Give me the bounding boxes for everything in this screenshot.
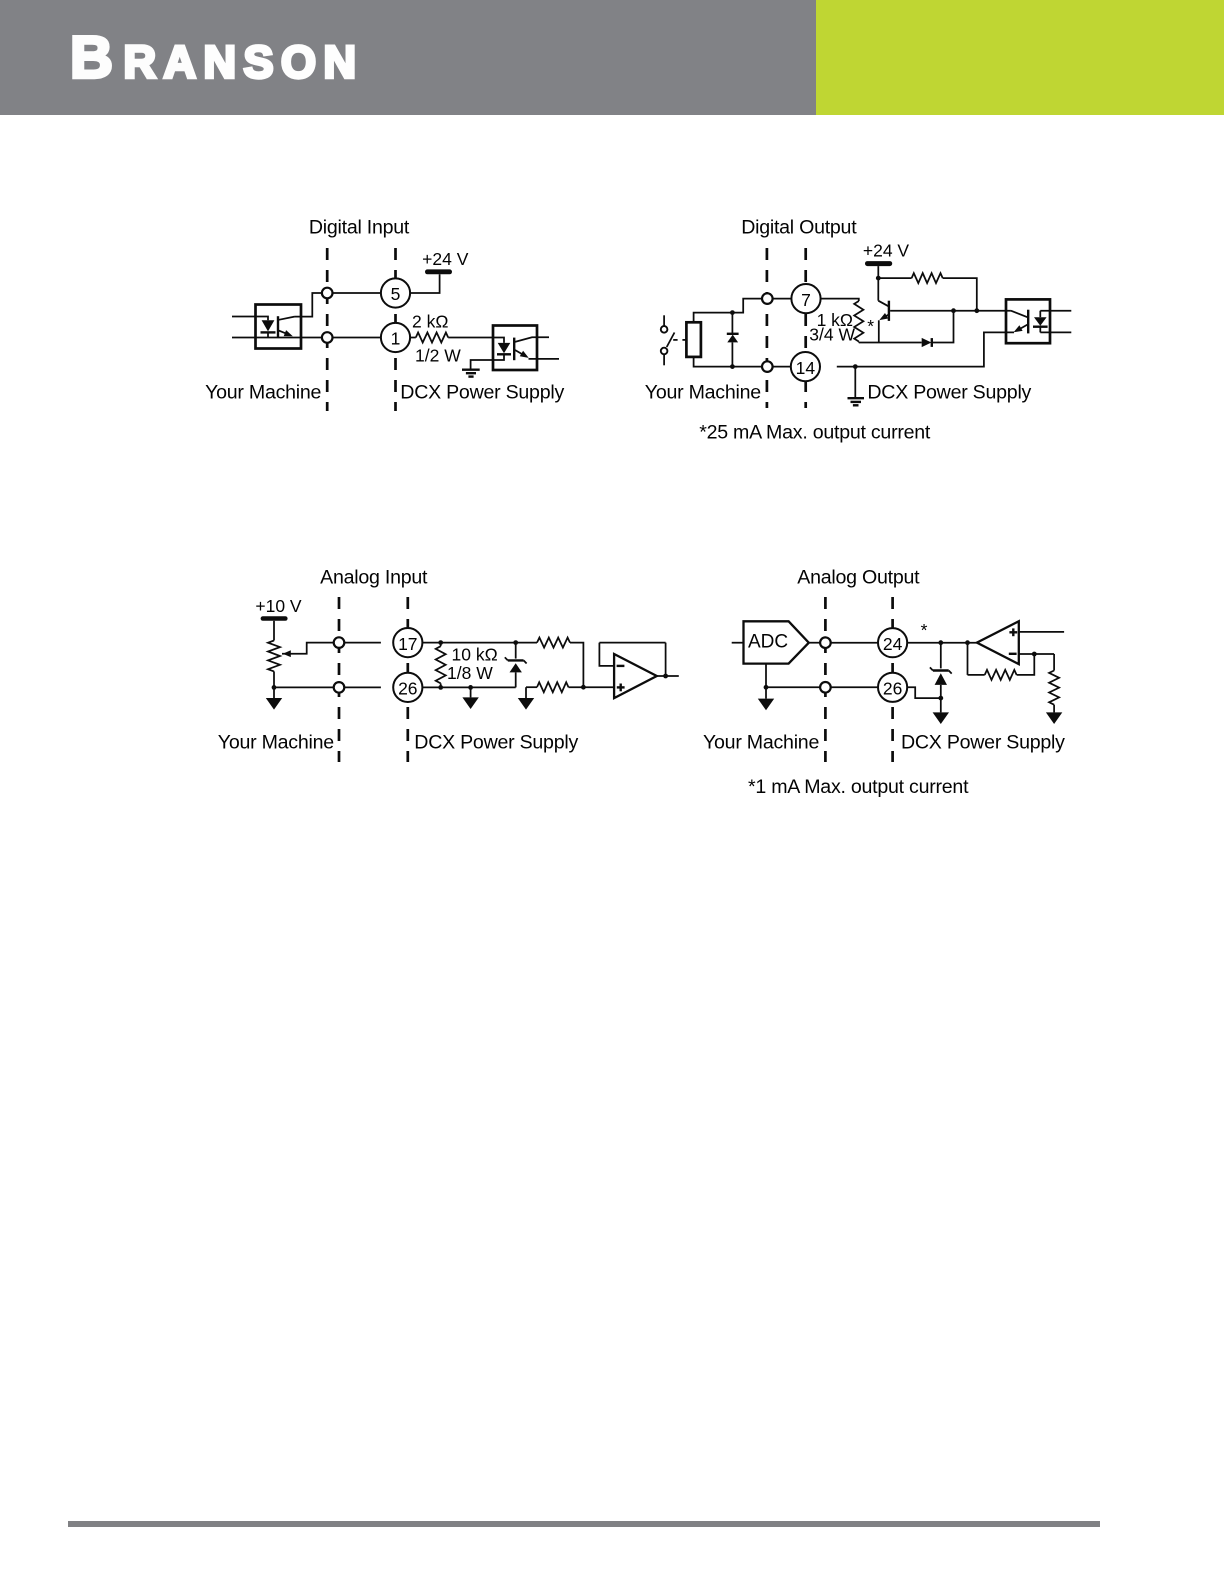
svg-text:10 kΩ: 10 kΩ xyxy=(452,644,498,664)
svg-text:DCX Power Supply: DCX Power Supply xyxy=(867,381,1031,403)
svg-text:*25 mA Max. output current: *25 mA Max. output current xyxy=(699,422,931,444)
svg-text:*1 mA Max. output current: *1 mA Max. output current xyxy=(748,776,969,798)
svg-text:3/4 W: 3/4 W xyxy=(809,325,855,345)
svg-text:26: 26 xyxy=(883,679,902,699)
svg-text:+10 V: +10 V xyxy=(255,596,302,616)
svg-text:24: 24 xyxy=(883,634,903,654)
svg-text:Analog Output: Analog Output xyxy=(797,567,920,589)
svg-text:*: * xyxy=(921,620,928,640)
svg-text:14: 14 xyxy=(796,358,816,378)
svg-text:1: 1 xyxy=(391,329,401,349)
svg-text:DCX Power Supply: DCX Power Supply xyxy=(400,381,564,403)
svg-text:Your Machine: Your Machine xyxy=(205,381,321,403)
svg-text:17: 17 xyxy=(398,634,417,654)
svg-text:+24 V: +24 V xyxy=(422,249,469,269)
svg-text:DCX Power Supply: DCX Power Supply xyxy=(901,732,1065,754)
svg-text:Digital Output: Digital Output xyxy=(741,217,857,239)
svg-text:5: 5 xyxy=(391,284,401,304)
svg-text:BRANSON: BRANSON xyxy=(70,23,364,90)
svg-text:1/2 W: 1/2 W xyxy=(415,346,461,366)
svg-text:26: 26 xyxy=(398,679,417,699)
svg-text:Your Machine: Your Machine xyxy=(645,382,761,404)
svg-text:1/8 W: 1/8 W xyxy=(447,663,493,683)
svg-text:Your Machine: Your Machine xyxy=(218,732,334,754)
svg-text:+24 V: +24 V xyxy=(863,240,910,260)
svg-text:7: 7 xyxy=(801,290,811,310)
svg-text:Analog Input: Analog Input xyxy=(320,567,428,589)
svg-text:DCX Power Supply: DCX Power Supply xyxy=(414,732,578,754)
svg-text:2 kΩ: 2 kΩ xyxy=(412,312,448,332)
svg-text:Your Machine: Your Machine xyxy=(703,732,819,754)
svg-text:Digital Input: Digital Input xyxy=(309,217,410,239)
svg-text:*: * xyxy=(867,316,874,336)
svg-text:ADC: ADC xyxy=(748,631,788,652)
